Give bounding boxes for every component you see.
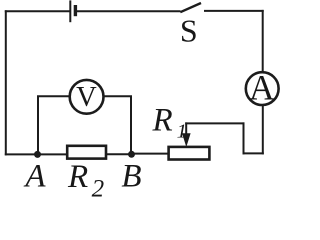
svg-text:R1: R1 xyxy=(152,103,187,143)
svg-text:A: A xyxy=(249,68,275,108)
wire bottom-right horizontal xyxy=(243,152,264,154)
wire node B to rheostat xyxy=(132,153,169,155)
wire top-left horizontal xyxy=(5,10,70,12)
node B junction dot xyxy=(128,151,135,158)
wire vertical riser xyxy=(243,122,245,154)
wire voltmeter right branch xyxy=(104,96,132,154)
wire ammeter down xyxy=(262,105,264,154)
wire R2 to node B xyxy=(106,153,132,155)
wire right vertical down to ammeter xyxy=(262,10,264,73)
wire wiper horizontal xyxy=(185,122,244,124)
rheostat R1 body xyxy=(169,147,210,160)
battery B1 xyxy=(70,0,75,22)
wire switch to top-right corner xyxy=(204,10,264,12)
svg-text:V: V xyxy=(76,82,97,113)
wire left vertical xyxy=(5,10,7,155)
svg-text:A: A xyxy=(23,159,46,195)
switch S xyxy=(180,3,201,12)
ammeter U1 xyxy=(246,72,279,105)
wire battery to switch xyxy=(77,10,181,12)
rheostat slider arrow xyxy=(182,122,191,147)
svg-text:B: B xyxy=(121,159,141,195)
voltmeter U2 xyxy=(70,80,104,114)
wire voltmeter left branch xyxy=(38,96,70,154)
node A junction dot xyxy=(34,151,41,158)
resistor R2 body xyxy=(67,146,106,159)
wire bottom left xyxy=(5,153,67,155)
svg-text:R2: R2 xyxy=(67,159,104,201)
svg-text:S: S xyxy=(180,13,198,49)
